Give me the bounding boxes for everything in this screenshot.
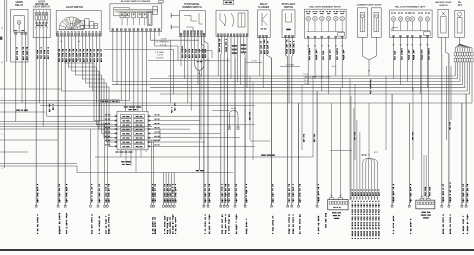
wire: central connector bottom exits [121, 150, 146, 173]
wire end at x=36.2 [35, 38, 38, 234]
label: fuse wire colors [37, 47, 49, 59]
wire bus: feed 7 [160, 93, 470, 95]
label: right margin wire [449, 122, 451, 130]
wire: turn signal outputs [181, 35, 208, 206]
wire bus: left low stubs [0, 140, 58, 152]
wire end at x=90.5 [89, 129, 92, 234]
wire end at x=163.4 [162, 173, 165, 235]
label: turn signal wire colors [182, 46, 207, 58]
svg-text:TURN SIGNAL: TURN SIGNAL [184, 3, 200, 6]
label: connector P text [421, 212, 431, 219]
wire: mid-band verticals [245, 58, 413, 206]
fuse block: light distribution [33, 1, 50, 37]
svg-text:7: 7 [2, 98, 3, 100]
label: tail left wire colors [394, 48, 430, 60]
wire: right verticals to bottom [446, 66, 466, 206]
label: arch pins [228, 125, 239, 129]
wire end at x=392.1 [391, 94, 394, 234]
label: left margin marks [1, 28, 4, 170]
svg-text:JCT: JCT [458, 5, 463, 7]
wire: stop light outputs [286, 37, 293, 206]
wire: central connector feeds [47, 114, 255, 146]
wire: wiper left routing [196, 51, 230, 61]
wire: horn relay pin 1 down [15, 35, 17, 122]
wire end at x=65.2 [64, 60, 67, 234]
wire end at x=461.9 [461, 103, 464, 234]
wire bus: feed 9 [0, 102, 472, 104]
svg-text:AT LIGHT SWITCH CONN FM: AT LIGHT SWITCH CONN FM [121, 0, 151, 3]
wire end at x=317.1 [316, 91, 319, 234]
wire: connector P feeds [421, 50, 431, 199]
wire end at x=224.2 [223, 58, 226, 234]
relay K1: horn relay [11, 1, 28, 62]
switch S4: stop light switch [282, 4, 296, 37]
svg-text:3: 3 [2, 168, 3, 170]
pins: control module bottom row [112, 29, 160, 31]
label: wiper switch wire colors [219, 39, 246, 54]
wire bus: lower red [95, 156, 313, 158]
svg-text:TAIL LIGHT ASSEMBLY LEFT: TAIL LIGHT ASSEMBLY LEFT [395, 6, 426, 9]
wire bus: feed 10 [40, 105, 255, 107]
wire bus: horn line [0, 111, 45, 113]
lamp assembly: tail light left [390, 6, 432, 38]
wire end at x=104.7 [104, 124, 107, 234]
label: license plate wire [370, 80, 372, 94]
wire: license plate feeds [363, 37, 377, 76]
svg-text:1.5 W: 1.5 W [251, 61, 256, 63]
wire bus: left group 1 [0, 121, 100, 123]
wire: fuse block outputs down [36, 38, 47, 206]
connector stacks: B+ columns [454, 52, 473, 62]
wire bus: headlight feed 1 [168, 75, 455, 77]
wire end at x=98.0 [97, 122, 100, 235]
svg-text:LIGHT SWITCH: LIGHT SWITCH [33, 6, 50, 8]
label: lower red [261, 155, 275, 156]
wire end at x=151.4 [150, 140, 153, 234]
svg-text:RELAY: RELAY [260, 3, 268, 6]
pins: wiper switch [217, 34, 247, 36]
wire: horn relay pin 2 down [21, 35, 23, 104]
wire: connector N feeds [331, 88, 342, 198]
connector: wiper floor harness [328, 198, 348, 210]
label: below connector [115, 151, 132, 165]
svg-text:LT GRN/BLK: LT GRN/BLK [156, 42, 169, 44]
module: light check / interior lamp control [110, 0, 163, 31]
left inner border line [6, 0, 8, 62]
label: horn bus [16, 110, 28, 111]
label: stop light wire colors [286, 40, 295, 54]
wire: tail light right feeds [307, 38, 343, 94]
wire end at x=153.7 [153, 140, 156, 234]
wire: B+ fan-out [455, 37, 472, 52]
lamp: license plate lights [357, 3, 382, 37]
svg-text:1.5 GRN: 1.5 GRN [155, 52, 164, 54]
pins: tail light left [393, 35, 429, 37]
svg-text:1.5 W: 1.5 W [157, 55, 164, 57]
switch S3: wiper switch [216, 0, 248, 36]
svg-text:1.5 W: 1.5 W [161, 39, 168, 41]
wire: wiper switch outputs [218, 36, 247, 206]
wire end at x=166.1 [165, 173, 168, 235]
wire bus: bottom bus [77, 172, 233, 174]
wire: B+ columns down [455, 62, 472, 103]
label: light switch wire colors [59, 49, 103, 62]
wire bus: feed 8 [0, 100, 130, 102]
wire bus: left low pair A [0, 163, 77, 165]
label: horn relay wire colors [16, 47, 27, 60]
svg-text:1.5 GL: 1.5 GL [160, 44, 167, 46]
wire: arch splice [212, 108, 238, 129]
connector: backup lamp harness [416, 199, 435, 209]
svg-text:SWITCH: SWITCH [284, 7, 293, 9]
wire bus: left low pair B [0, 166, 77, 173]
wire: light switch outputs down [58, 36, 113, 206]
wire end at x=171.5 [170, 173, 173, 235]
svg-text:1.5 R: 1.5 R [304, 80, 309, 82]
left edge blob [0, 37, 2, 40]
pins: flasher [259, 35, 268, 37]
wire end at x=448.9 [448, 54, 451, 234]
pins: horn relay [15, 32, 27, 34]
pins: light switch bottom row [57, 31, 101, 35]
label: mid band notes [249, 74, 414, 142]
wire end at x=409.3 [408, 103, 411, 234]
junction: Y merge [195, 61, 204, 170]
svg-text:RELAY: RELAY [15, 4, 23, 7]
wire bus: feed 3 [113, 81, 460, 83]
svg-text:LIGHT SWITCH: LIGHT SWITCH [66, 6, 84, 9]
wire end at x=466.1 [465, 94, 468, 234]
wire end at x=298.5 [297, 103, 300, 234]
svg-text:FM LICENSE PLATE LIGHT: FM LICENSE PLATE LIGHT [305, 75, 331, 78]
wire: backup switch outputs [442, 37, 449, 206]
svg-text:5: 5 [2, 134, 3, 136]
label: staircase wire notes [49, 103, 176, 113]
wire end at x=441.8 [441, 54, 444, 234]
svg-text:1.2: 1.2 [1, 62, 4, 64]
svg-text:TAIL LIGHT ASSEMBLY RIGHT: TAIL LIGHT ASSEMBLY RIGHT [309, 6, 341, 9]
wire bus: feed 5 [150, 87, 465, 89]
wire end at x=107.4 [106, 127, 109, 235]
label: connector N text [325, 212, 341, 228]
svg-text:BACKUP LIGHT: BACKUP LIGHT [435, 1, 452, 4]
svg-text:DIMMER SWITCH: DIMMER SWITCH [182, 7, 201, 9]
left border line [4, 0, 6, 168]
wire: top-mid stubs [246, 63, 352, 151]
pins: turn signal switch [180, 31, 205, 36]
svg-text:STOP LIGHT: STOP LIGHT [282, 4, 296, 6]
pins: tail light right [307, 36, 343, 38]
svg-text:12: 12 [1, 28, 3, 30]
svg-text:1.5 GRN: 1.5 GRN [286, 65, 294, 67]
wire: module outputs [104, 31, 210, 111]
wire bus: headlight feed 2 [150, 78, 458, 80]
label: module wire colors [155, 39, 169, 60]
label: bottom bus [196, 170, 205, 171]
wire end at x=287.7 [287, 57, 290, 234]
arrow: light switch feeds [60, 41, 80, 43]
wire bus: left group 2 [0, 123, 108, 125]
sheet rule: bottom border [0, 249, 474, 251]
label: top-mid notes [251, 61, 379, 154]
wire end at x=220.8 [220, 58, 223, 234]
wire bus: feed 4 [112, 84, 462, 86]
wire end at x=245.1 [244, 58, 247, 234]
wire bus: mid link [108, 129, 160, 140]
wire: tail light left feeds [393, 37, 429, 94]
wire end at x=227.6 [227, 58, 230, 234]
connector block: central bulkhead C/B [113, 106, 152, 149]
wire: horn relay pin 3 down [25, 35, 27, 113]
switch S5: backup light switch [435, 1, 452, 37]
wire end at x=174.2 [173, 173, 176, 235]
wire end at x=235.0 [234, 58, 237, 234]
wire bus: left group 4 [0, 128, 160, 130]
wire end at x=58.1 [57, 36, 60, 234]
svg-text:SWITCH: SWITCH [439, 5, 448, 7]
wire end at x=168.8 [168, 173, 171, 235]
svg-text:LICENSE PLATE LIGHTS: LICENSE PLATE LIGHTS [357, 3, 382, 6]
lamp assembly: tail light right [305, 6, 347, 39]
wire comb: floor harness bundle [350, 96, 380, 239]
switch S2: turn signal dimmer switch [171, 3, 205, 36]
wire bus: feed 6 [61, 90, 467, 92]
junction: B+ feed [455, 2, 465, 37]
pins: stop light switch [285, 35, 294, 37]
wire bus: left y89 [0, 88, 61, 90]
label: flasher wire colors [260, 40, 268, 54]
wire end at x=203.9 [203, 58, 206, 234]
svg-text:1.5 BLK: 1.5 BLK [156, 57, 164, 59]
switch S1: light switch (rotary) [56, 6, 101, 36]
wire end at x=291.8 [291, 57, 294, 234]
wire end at x=271.5 [270, 58, 273, 234]
svg-text:1.5 B: 1.5 B [304, 83, 309, 85]
label: tail right wire colors [309, 48, 345, 60]
relay K2: turn signal flasher [257, 3, 270, 37]
label: connector side notes [101, 100, 120, 103]
svg-text:FLASHER: FLASHER [258, 6, 269, 9]
wire: flasher outputs [260, 37, 272, 206]
wire bus: left group 3 [0, 126, 152, 128]
wire end at x=208.0 [207, 58, 210, 234]
